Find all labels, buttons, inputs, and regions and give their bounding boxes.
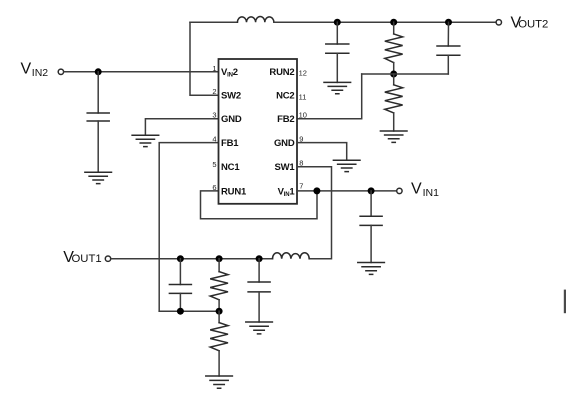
svg-text:12: 12 — [299, 69, 307, 78]
ground for CIN2 — [85, 172, 112, 183]
svg-text:NC2: NC2 — [276, 91, 294, 102]
terminal VIN1 (open circle) — [397, 188, 402, 193]
ground for COUT2 — [324, 82, 351, 93]
resistor R-top of FB2 divider — [385, 22, 403, 74]
node junction dot VOUT1 / R-divider top — [216, 255, 223, 262]
svg-text:3: 3 — [212, 111, 216, 120]
svg-text:1: 1 — [212, 64, 216, 73]
node junction dot VOUT1 / COUT1 — [256, 255, 263, 262]
ground for pin 9 — [333, 160, 360, 171]
capacitor CIN2 (input cap channel 2) — [87, 72, 109, 172]
node junction dot midpoint / CFF1 — [177, 308, 184, 315]
svg-text:2: 2 — [212, 87, 216, 96]
capacitor CIN1 (input cap channel 1) — [360, 191, 382, 263]
wire RUN1 loop (pin 6 tied to VIN1 node) — [201, 191, 318, 219]
ground for CIN1 — [358, 263, 385, 275]
node junction dot midpoint / R-divider — [216, 308, 223, 315]
inductor L2 (channel 2 buck inductor) — [237, 16, 274, 22]
svg-text:5: 5 — [212, 160, 216, 169]
svg-text:SW1: SW1 — [275, 162, 296, 173]
svg-text:GND: GND — [221, 114, 242, 125]
svg-text:10: 10 — [299, 111, 307, 120]
op IC U1 (dual buck regulator) body — [219, 59, 298, 204]
terminal VOUT1 (open circle) — [105, 256, 110, 261]
resistor R-bottom of FB2 divider — [385, 74, 403, 131]
svg-text:IN2: IN2 — [32, 67, 49, 79]
svg-text:OUT1: OUT1 — [72, 253, 102, 265]
resistor R-top of FB1 divider — [210, 259, 228, 312]
inductor L1 (channel 1 buck inductor) — [273, 253, 310, 259]
svg-text:4: 4 — [212, 135, 216, 144]
wire SW1 (pin 8 right, down, to inductor L1) — [297, 167, 332, 259]
wire SW2 riser (top rail down to pin 2) — [190, 22, 219, 95]
resistor R-bottom of FB1 divider — [210, 311, 228, 376]
svg-text:FB2: FB2 — [277, 114, 294, 125]
wire VIN1 (pin 7 to terminal) — [297, 190, 396, 192]
wire top rail left segment (SW2 node to inductor) — [190, 21, 237, 23]
ground for pin 3 — [132, 135, 159, 146]
wire FB1 divider midpoint row — [159, 310, 219, 312]
ground for COUT1 — [246, 322, 273, 334]
capacitor CFF2 (feed-forward cap channel 2) — [437, 22, 460, 74]
svg-text:7: 7 — [299, 182, 303, 191]
wire FB1 (pin 4 left and down to divider midpoint) — [159, 143, 218, 312]
wire FB2 (midpoint down and into pin 10) — [297, 74, 362, 119]
capacitor COUT1 (output cap channel 1) — [248, 259, 270, 322]
capacitor COUT2 (output cap channel 2) — [326, 22, 349, 82]
wire FB2 midpoint horizontal — [362, 73, 449, 75]
ground for FB1 divider — [206, 376, 233, 388]
svg-text:FB1: FB1 — [221, 138, 239, 149]
wire top rail right segment (inductor to VOUT2 terminal) — [274, 21, 496, 23]
wire VOUT1 rail to inductor L1 — [111, 258, 272, 260]
wire GND pin 3 to ground — [145, 119, 218, 136]
svg-text:11: 11 — [299, 92, 307, 101]
terminal VIN2 (open circle) — [58, 69, 63, 74]
node junction dot VOUT1 / CFF1 — [177, 255, 184, 262]
ground for FB2 divider — [380, 131, 407, 142]
svg-text:SW2: SW2 — [221, 91, 241, 102]
node junction dot VOUT2 rail / feed-forward cap — [445, 19, 452, 26]
node junction dot VIN1 / CIN1 — [368, 187, 375, 194]
node junction dot VOUT2 rail / R-divider top — [390, 19, 397, 26]
svg-text:V: V — [21, 60, 32, 77]
terminal VOUT2 (open circle) — [496, 20, 501, 25]
svg-text:RUN1: RUN1 — [221, 186, 247, 197]
capacitor CFF1 (feed-forward cap channel 1) — [169, 259, 191, 312]
svg-text:GND: GND — [274, 138, 295, 149]
svg-text:OUT2: OUT2 — [518, 19, 548, 31]
wire GND pin 9 to ground — [297, 143, 347, 161]
svg-text:IN1: IN1 — [423, 187, 440, 199]
edge artifact (scrollbar fragment) — [564, 290, 566, 314]
node junction dot VIN1 / RUN1 — [313, 187, 320, 194]
node junction dot VIN2 / CIN2 — [95, 68, 102, 75]
node FB2 divider midpoint (junction dot) — [390, 71, 397, 78]
svg-text:V: V — [411, 181, 422, 198]
wire VIN2 to pin 1 — [64, 71, 219, 73]
node junction dot VOUT2 rail / COUT2 — [334, 19, 341, 26]
svg-text:RUN2: RUN2 — [269, 67, 294, 78]
svg-text:NC1: NC1 — [221, 162, 240, 173]
svg-text:6: 6 — [212, 183, 216, 192]
